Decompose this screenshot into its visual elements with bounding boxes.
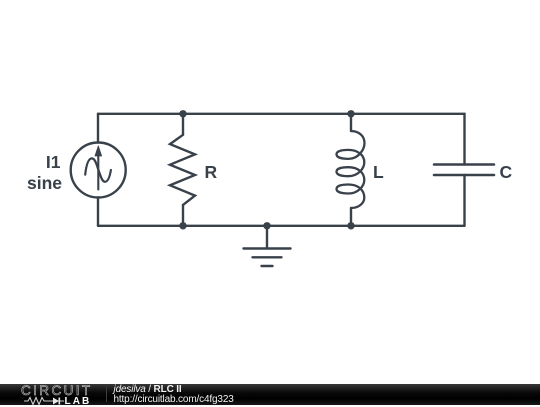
wire: top rail from current source to capacitor <box>98 113 465 115</box>
svg-text:C: C <box>500 162 513 182</box>
footer url line <box>114 394 234 405</box>
node: bottom rail / R junction <box>179 222 186 229</box>
ground bar 3 <box>262 265 273 267</box>
node: bottom rail / ground junction <box>263 222 270 229</box>
footer divider <box>106 386 107 402</box>
footer bar <box>0 384 540 405</box>
resistor R <box>170 114 195 226</box>
svg-text:sine: sine <box>27 173 62 193</box>
footer title line <box>114 384 182 395</box>
R zigzag body <box>170 135 195 205</box>
svg-text:L: L <box>373 162 384 182</box>
C bottom plate <box>434 174 494 177</box>
L coil body <box>337 131 365 208</box>
footer logo resistor-diode glyph <box>23 396 67 406</box>
I1 sine wave glyph <box>85 158 111 181</box>
current source I1 <box>71 114 126 226</box>
wire: R top lead <box>182 114 184 135</box>
inductor L <box>337 114 365 226</box>
C top plate <box>434 163 494 166</box>
node: bottom rail / L junction <box>347 222 354 229</box>
wire: L bottom lead <box>350 208 352 226</box>
wire: C top lead <box>463 114 465 165</box>
wire: R bottom lead <box>182 205 184 226</box>
wire: L top lead <box>350 114 352 131</box>
wire: ground stub <box>266 226 268 249</box>
ground bar 2 <box>253 256 282 258</box>
wire: I1 bottom lead <box>97 198 99 226</box>
I1 arrowhead <box>95 146 102 156</box>
svg-text:I1: I1 <box>46 152 61 172</box>
capacitor C <box>434 114 494 226</box>
I1 arrow shaft <box>97 154 99 190</box>
wire: C bottom lead <box>463 175 465 226</box>
I1 circle body <box>71 143 126 198</box>
ground bar 1 <box>244 247 291 249</box>
node: top rail / R junction <box>179 110 186 117</box>
wire: bottom rail from current source to capacitor <box>98 225 465 227</box>
node: top rail / L junction <box>347 110 354 117</box>
wire: I1 top lead <box>97 114 99 143</box>
ground symbol <box>244 226 291 266</box>
footer logo LAB <box>65 396 92 407</box>
svg-text:R: R <box>205 162 218 182</box>
footer logo CIRCUIT <box>21 383 93 398</box>
